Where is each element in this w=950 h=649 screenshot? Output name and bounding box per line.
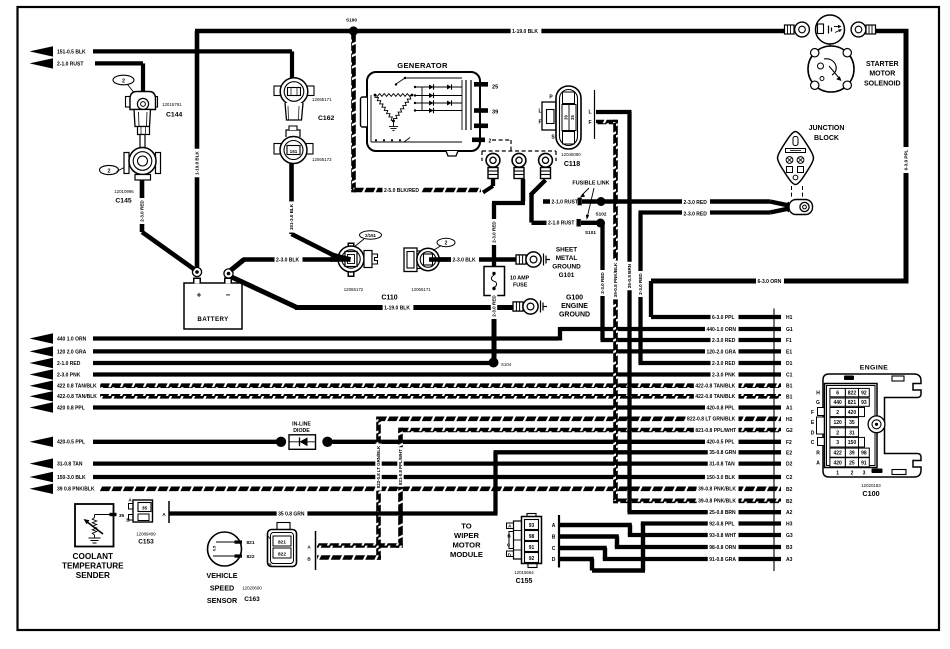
- svg-text:2-3.0 RED: 2-3.0 RED: [684, 211, 708, 217]
- svg-text:25: 25: [492, 85, 498, 91]
- svg-text:39: 39: [563, 115, 568, 120]
- svg-text:39-0.8 PNK/BLK: 39-0.8 PNK/BLK: [698, 499, 736, 505]
- svg-text:420: 420: [833, 460, 842, 466]
- svg-text:39-0.8 PNK/BLK: 39-0.8 PNK/BLK: [613, 262, 618, 297]
- svg-text:93: 93: [861, 400, 867, 406]
- svg-text:1-19.0 BLK: 1-19.0 BLK: [384, 305, 410, 311]
- svg-text:120-2.0 GRA: 120-2.0 GRA: [706, 349, 736, 355]
- svg-text:C162: C162: [318, 115, 334, 122]
- svg-text:R: R: [816, 451, 820, 457]
- svg-text:420 0.8 PPL: 420 0.8 PPL: [57, 405, 85, 411]
- svg-text:35: 35: [849, 420, 855, 426]
- svg-text:10 AMP: 10 AMP: [510, 276, 530, 282]
- svg-text:822: 822: [848, 391, 857, 397]
- svg-text:12065172: 12065172: [344, 287, 364, 292]
- svg-text:BLOCK: BLOCK: [814, 135, 839, 142]
- svg-text:COOLANT: COOLANT: [73, 552, 113, 561]
- svg-text:G1: G1: [786, 327, 793, 333]
- svg-text:151-0.5 BLK: 151-0.5 BLK: [57, 49, 86, 55]
- svg-text:E2: E2: [786, 450, 792, 456]
- svg-text:D2: D2: [786, 462, 793, 468]
- svg-text:GENERATOR: GENERATOR: [397, 61, 448, 70]
- svg-text:2-3.0 RED: 2-3.0 RED: [638, 273, 643, 295]
- svg-text:6-3.0 ORN: 6-3.0 ORN: [758, 279, 782, 285]
- svg-text:2: 2: [836, 430, 839, 436]
- svg-text:98-0.8 ORN: 98-0.8 ORN: [709, 545, 736, 551]
- svg-text:C: C: [811, 440, 815, 446]
- svg-text:3: 3: [863, 471, 866, 477]
- svg-text:+: +: [197, 291, 202, 300]
- svg-text:A1: A1: [786, 406, 793, 412]
- svg-text:B1: B1: [786, 394, 793, 400]
- svg-text:FUSIBLE LINK: FUSIBLE LINK: [572, 181, 609, 187]
- svg-text:2: 2: [445, 241, 448, 247]
- svg-text:92-0.8 PPL: 92-0.8 PPL: [709, 521, 734, 527]
- svg-text:822-0.8 LT GRN/BLK: 822-0.8 LT GRN/BLK: [687, 417, 736, 423]
- svg-text:C: C: [552, 546, 556, 552]
- svg-text:2-3.0 RED: 2-3.0 RED: [600, 272, 605, 294]
- svg-text:B: B: [552, 535, 556, 541]
- svg-text:31: 31: [849, 430, 855, 436]
- svg-text:422 0.8 TAN/BLK: 422 0.8 TAN/BLK: [57, 384, 97, 390]
- svg-text:2-3.0 RED: 2-3.0 RED: [712, 361, 736, 367]
- svg-text:25-0.8 BRN: 25-0.8 BRN: [709, 510, 736, 516]
- svg-text:−: −: [226, 291, 231, 300]
- svg-text:92: 92: [529, 556, 535, 562]
- svg-text:822: 822: [278, 552, 286, 558]
- svg-text:440: 440: [833, 400, 842, 406]
- svg-text:2: 2: [836, 410, 839, 416]
- svg-text:WIPER: WIPER: [454, 531, 479, 540]
- svg-text:METAL: METAL: [556, 255, 578, 262]
- svg-text:0.5: 0.5: [212, 545, 217, 551]
- svg-text:SPEED: SPEED: [210, 584, 234, 593]
- svg-text:C155: C155: [516, 578, 533, 585]
- svg-text:C2: C2: [786, 475, 793, 481]
- svg-text:39-0.8 PNK/BLK: 39-0.8 PNK/BLK: [698, 487, 736, 493]
- svg-text:2-3.0 PNK: 2-3.0 PNK: [712, 372, 736, 378]
- svg-text:MOTOR: MOTOR: [869, 71, 895, 78]
- svg-text:2: 2: [122, 78, 125, 84]
- svg-text:151-3.0 BLK: 151-3.0 BLK: [289, 203, 294, 230]
- svg-text:39: 39: [492, 110, 498, 116]
- svg-text:A: A: [816, 460, 820, 466]
- svg-text:C110: C110: [381, 295, 397, 302]
- svg-text:150-3.0 BLK: 150-3.0 BLK: [57, 475, 86, 481]
- svg-text:2-3.0 BLK: 2-3.0 BLK: [453, 257, 476, 263]
- svg-text:STARTER: STARTER: [866, 61, 899, 68]
- svg-text:BATTERY: BATTERY: [197, 316, 229, 323]
- svg-text:G2: G2: [786, 428, 793, 434]
- svg-text:35-0.8 GRN: 35-0.8 GRN: [709, 450, 736, 456]
- svg-text:98: 98: [529, 534, 535, 540]
- svg-text:420: 420: [848, 410, 857, 416]
- svg-text:SENSOR: SENSOR: [207, 596, 238, 605]
- svg-text:C153: C153: [138, 539, 154, 546]
- svg-text:C100: C100: [862, 489, 879, 498]
- svg-text:35: 35: [142, 506, 148, 512]
- svg-text:1-19.0 BLK: 1-19.0 BLK: [512, 29, 538, 35]
- svg-text:12065171: 12065171: [411, 287, 431, 292]
- svg-text:MODULE: MODULE: [450, 550, 483, 559]
- svg-text:821: 821: [278, 540, 286, 546]
- svg-text:H: H: [816, 391, 820, 397]
- svg-text:91: 91: [861, 460, 867, 466]
- svg-text:H2: H2: [786, 417, 793, 423]
- svg-text:420-0.8 PPL: 420-0.8 PPL: [706, 405, 734, 411]
- svg-text:C144: C144: [166, 112, 182, 119]
- svg-text:422: 422: [833, 451, 842, 457]
- svg-text:12089499: 12089499: [136, 532, 156, 537]
- svg-text:C118: C118: [564, 161, 580, 168]
- svg-text:2-3.0 BLK: 2-3.0 BLK: [276, 257, 299, 263]
- svg-text:S102: S102: [596, 212, 607, 217]
- svg-text:H1: H1: [786, 315, 793, 321]
- svg-text:DIODE: DIODE: [293, 428, 310, 434]
- svg-text:G101: G101: [559, 272, 575, 279]
- svg-text:422-0.8 TAN/BLK: 422-0.8 TAN/BLK: [695, 384, 735, 390]
- svg-text:6: 6: [836, 391, 839, 397]
- svg-text:B1: B1: [786, 384, 793, 390]
- svg-text:821: 821: [246, 540, 254, 546]
- svg-text:ENGINE: ENGINE: [860, 364, 889, 371]
- svg-text:C145: C145: [115, 198, 131, 205]
- svg-text:A: A: [552, 523, 556, 529]
- svg-text:821: 821: [848, 400, 857, 406]
- svg-text:F: F: [588, 120, 591, 126]
- svg-text:MOTOR: MOTOR: [452, 541, 481, 550]
- svg-text:821-0.8 PPL/WHT: 821-0.8 PPL/WHT: [695, 428, 736, 434]
- svg-text:S190: S190: [346, 18, 357, 23]
- svg-text:B3: B3: [786, 545, 793, 551]
- svg-text:35 0.8 GRN: 35 0.8 GRN: [278, 511, 305, 517]
- svg-text:93-0.8 WHT: 93-0.8 WHT: [709, 533, 736, 539]
- svg-text:12020600: 12020600: [242, 586, 262, 591]
- svg-text:91-0.8 GRA: 91-0.8 GRA: [709, 557, 736, 563]
- svg-text:440-1.0 ORN: 440-1.0 ORN: [706, 327, 736, 333]
- svg-text:S101: S101: [585, 230, 596, 235]
- svg-text:151: 151: [290, 149, 298, 154]
- svg-text:120 2.0 GRA: 120 2.0 GRA: [57, 349, 87, 355]
- svg-text:12015791: 12015791: [162, 102, 182, 107]
- svg-text:440 1.0 ORN: 440 1.0 ORN: [57, 336, 87, 342]
- svg-text:2-3.0 RED: 2-3.0 RED: [140, 200, 145, 222]
- svg-text:F1: F1: [786, 338, 792, 344]
- svg-text:L: L: [588, 110, 591, 116]
- svg-text:2-5.0 BLK/RED: 2-5.0 BLK/RED: [384, 188, 419, 194]
- svg-text:91: 91: [529, 545, 535, 551]
- svg-text:TEMPERATURE: TEMPERATURE: [62, 561, 124, 570]
- svg-text:2-3.0 RED: 2-3.0 RED: [684, 200, 708, 206]
- svg-text:422-0.8 TAN/BLK: 422-0.8 TAN/BLK: [57, 394, 97, 400]
- svg-text:2: 2: [108, 168, 111, 174]
- svg-text:C1: C1: [786, 373, 793, 379]
- svg-text:F2: F2: [786, 440, 792, 446]
- svg-text:150: 150: [848, 440, 857, 446]
- svg-text:35: 35: [119, 513, 125, 519]
- svg-text:S104: S104: [501, 362, 512, 367]
- svg-text:ENGINE: ENGINE: [561, 303, 588, 310]
- svg-text:L: L: [538, 109, 541, 115]
- svg-text:25-0.8 BRN: 25-0.8 BRN: [627, 263, 632, 288]
- svg-text:E1: E1: [786, 349, 792, 355]
- svg-text:B2: B2: [786, 499, 793, 505]
- svg-text:12045090: 12045090: [561, 152, 581, 157]
- svg-text:GROUND: GROUND: [559, 312, 590, 319]
- svg-text:12010996: 12010996: [114, 189, 134, 194]
- svg-text:F: F: [538, 120, 541, 126]
- svg-text:422-0.8 TAN/BLK: 422-0.8 TAN/BLK: [695, 394, 735, 400]
- svg-text:12065172: 12065172: [312, 157, 332, 162]
- svg-text:SOLENOID: SOLENOID: [864, 80, 901, 87]
- svg-text:2-3.0 RED: 2-3.0 RED: [492, 221, 497, 243]
- svg-text:D: D: [552, 557, 556, 563]
- svg-text:1: 1: [836, 471, 839, 477]
- svg-text:6-3.0 PPL: 6-3.0 PPL: [904, 149, 909, 170]
- svg-text:1-19.0 BLK: 1-19.0 BLK: [195, 150, 200, 174]
- svg-text:D: D: [811, 430, 815, 436]
- svg-text:2-1.0 RUST: 2-1.0 RUST: [57, 61, 83, 67]
- svg-text:821-0.8 PPL/WHT: 821-0.8 PPL/WHT: [398, 449, 403, 485]
- svg-text:2-3.0 RED: 2-3.0 RED: [712, 338, 736, 344]
- svg-text:120: 120: [833, 420, 842, 426]
- svg-text:98: 98: [861, 451, 867, 457]
- svg-text:A2: A2: [786, 510, 793, 516]
- svg-text:31-0.8 TAN: 31-0.8 TAN: [57, 462, 83, 468]
- svg-text:2-1.0 RUST: 2-1.0 RUST: [552, 199, 578, 205]
- svg-text:JUNCTION: JUNCTION: [809, 125, 845, 132]
- svg-text:39 0.8 PNK/BLK: 39 0.8 PNK/BLK: [57, 487, 95, 493]
- svg-text:12065171: 12065171: [312, 97, 332, 102]
- svg-text:SENDER: SENDER: [76, 571, 110, 580]
- svg-text:FUSE: FUSE: [513, 283, 528, 289]
- svg-text:C163: C163: [244, 596, 260, 603]
- svg-text:2-1.0 RED: 2-1.0 RED: [57, 361, 81, 367]
- svg-text:B2: B2: [786, 487, 793, 493]
- svg-text:150-3.0 BLK: 150-3.0 BLK: [706, 475, 735, 481]
- svg-text:822-0.8 LT GRN/BLK: 822-0.8 LT GRN/BLK: [376, 445, 381, 488]
- svg-text:H3: H3: [786, 522, 793, 528]
- svg-text:3: 3: [836, 440, 839, 446]
- svg-text:VEHICLE: VEHICLE: [206, 571, 237, 580]
- svg-text:G3: G3: [786, 533, 793, 539]
- svg-text:93: 93: [529, 523, 535, 529]
- svg-text:GROUND: GROUND: [552, 264, 581, 271]
- svg-text:2: 2: [851, 471, 854, 477]
- svg-text:822: 822: [246, 554, 254, 560]
- svg-text:SHEET: SHEET: [556, 247, 577, 254]
- svg-text:31-0.8 TAN: 31-0.8 TAN: [709, 462, 735, 468]
- svg-text:12020183: 12020183: [861, 483, 881, 488]
- svg-text:2-1.0 RUST: 2-1.0 RUST: [548, 221, 574, 227]
- svg-text:D1: D1: [786, 361, 793, 367]
- svg-text:2: 2: [489, 139, 492, 145]
- svg-text:25: 25: [849, 460, 855, 466]
- svg-text:420-0.5 PPL: 420-0.5 PPL: [57, 440, 85, 446]
- svg-text:G: G: [816, 400, 820, 406]
- svg-text:12015664: 12015664: [514, 570, 534, 575]
- svg-text:39: 39: [849, 451, 855, 457]
- svg-text:25: 25: [570, 115, 575, 120]
- svg-text:F: F: [811, 410, 814, 416]
- svg-text:A3: A3: [786, 557, 793, 563]
- svg-text:2-3.0 PNK: 2-3.0 PNK: [57, 372, 81, 378]
- svg-text:G100: G100: [566, 295, 583, 302]
- svg-text:92: 92: [861, 391, 867, 397]
- svg-text:TO: TO: [461, 522, 472, 531]
- svg-text:2-3.0 RED: 2-3.0 RED: [492, 295, 497, 317]
- svg-text:420-0.5 PPL: 420-0.5 PPL: [706, 440, 734, 446]
- svg-text:IN-LINE: IN-LINE: [292, 422, 311, 428]
- svg-text:2/151: 2/151: [365, 233, 377, 238]
- svg-text:6-3.0 PPL: 6-3.0 PPL: [712, 315, 735, 321]
